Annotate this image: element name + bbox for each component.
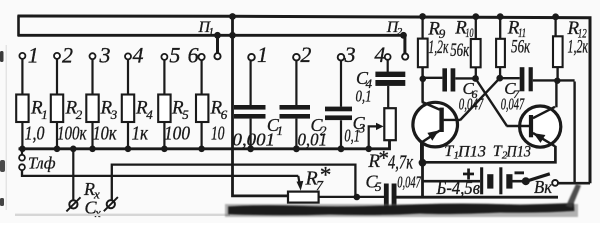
svg-text:3: 3 <box>99 42 111 67</box>
svg-text:56к: 56к <box>450 40 470 61</box>
svg-text:5: 5 <box>182 107 189 122</box>
svg-text:4: 4 <box>146 107 153 122</box>
svg-text:1к: 1к <box>132 123 149 145</box>
svg-text:1: 1 <box>41 107 48 122</box>
svg-text:1,0: 1,0 <box>25 123 45 145</box>
svg-text:5: 5 <box>375 179 382 194</box>
svg-text:10: 10 <box>211 123 225 145</box>
svg-text:2: 2 <box>300 42 311 67</box>
svg-text:П13: П13 <box>506 144 531 161</box>
svg-text:100: 100 <box>164 123 190 145</box>
svg-text:3: 3 <box>110 107 118 122</box>
svg-text:4: 4 <box>374 42 385 67</box>
svg-text:3: 3 <box>344 42 356 67</box>
svg-text:10к: 10к <box>93 123 118 145</box>
svg-text:2: 2 <box>397 26 403 38</box>
svg-text:6: 6 <box>188 43 199 68</box>
svg-text:5: 5 <box>169 43 180 68</box>
svg-text:0,047: 0,047 <box>397 173 421 192</box>
svg-text:2: 2 <box>76 107 83 122</box>
svg-text:1: 1 <box>209 26 215 38</box>
svg-text:Б-4,5в: Б-4,5в <box>436 178 480 199</box>
svg-text:1: 1 <box>277 123 284 138</box>
svg-text:4,7к: 4,7к <box>388 152 413 174</box>
svg-text:*: * <box>378 146 389 170</box>
svg-text:x: x <box>94 205 101 220</box>
svg-text:П13: П13 <box>457 144 486 161</box>
svg-text:0,047: 0,047 <box>459 94 484 113</box>
svg-text:1,2к: 1,2к <box>428 37 449 58</box>
svg-text:Вк: Вк <box>534 177 553 197</box>
svg-text:56к: 56к <box>511 37 531 58</box>
svg-text:0,01: 0,01 <box>298 130 328 150</box>
svg-text:*: * <box>319 163 331 188</box>
svg-text:0,001: 0,001 <box>233 130 276 150</box>
svg-text:10: 10 <box>466 25 474 40</box>
svg-text:1,2к: 1,2к <box>568 37 589 58</box>
svg-text:0,047: 0,047 <box>501 94 525 113</box>
svg-text:4: 4 <box>133 42 144 67</box>
svg-text:0,1: 0,1 <box>344 126 360 146</box>
svg-text:6: 6 <box>221 107 228 122</box>
svg-text:2: 2 <box>62 42 73 67</box>
svg-text:1: 1 <box>257 42 268 67</box>
svg-text:0,1: 0,1 <box>356 87 372 106</box>
svg-text:Тлф: Тлф <box>28 154 56 173</box>
svg-text:100к: 100к <box>57 123 87 145</box>
svg-text:1: 1 <box>28 42 39 67</box>
